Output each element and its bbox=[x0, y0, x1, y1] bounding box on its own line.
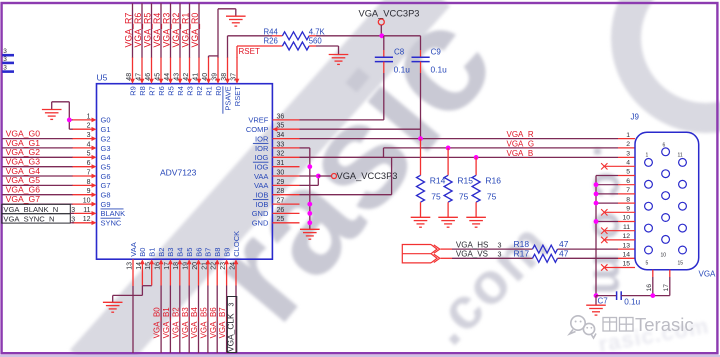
wire net VGA_R7 bbox=[132, 3, 134, 57]
PSAVE overline bbox=[222, 86, 224, 114]
svg-text:IOG: IOG bbox=[255, 153, 269, 162]
svg-text:R3: R3 bbox=[185, 86, 194, 96]
junction J9 pin 7 bbox=[594, 192, 599, 197]
svg-text:J9: J9 bbox=[631, 113, 640, 122]
svg-text:R26: R26 bbox=[264, 37, 278, 46]
svg-text:VGA_VCC3P3: VGA_VCC3P3 bbox=[337, 171, 398, 181]
U5 pin 38 stub bbox=[227, 57, 229, 80]
wire net VGA_R0 bbox=[198, 3, 200, 57]
svg-text:VGA_R2: VGA_R2 bbox=[171, 13, 181, 48]
svg-text:G8: G8 bbox=[101, 191, 111, 200]
U5 pin 43 stub bbox=[179, 57, 181, 80]
svg-text:30: 30 bbox=[277, 169, 285, 176]
wire GND pins junctions bbox=[307, 211, 312, 216]
svg-text:3: 3 bbox=[3, 65, 7, 72]
U5 pin 15 stub bbox=[151, 263, 153, 286]
no-connect X pin 11 bbox=[601, 228, 607, 234]
svg-text:IOR: IOR bbox=[255, 144, 269, 153]
svg-text:32: 32 bbox=[277, 151, 285, 158]
wire VGA_R line bbox=[300, 138, 619, 140]
svg-text:R9: R9 bbox=[128, 86, 137, 96]
port VGA_BLANK_N box bbox=[2, 204, 71, 213]
junction pin16 pin17 C7 bbox=[650, 293, 655, 298]
wire net VGA_R6 bbox=[141, 3, 143, 57]
wire VGA_B line bbox=[384, 156, 619, 158]
svg-text:5: 5 bbox=[646, 261, 649, 267]
U5 pin 44 stub bbox=[170, 57, 172, 80]
svg-text:13: 13 bbox=[126, 262, 133, 270]
svg-text:B9: B9 bbox=[222, 248, 231, 257]
svg-text:IOG: IOG bbox=[255, 163, 269, 172]
svg-text:13: 13 bbox=[622, 242, 630, 249]
U5 pin 29 stub bbox=[272, 184, 299, 186]
junction VGA_B R16 bbox=[474, 155, 479, 160]
wire J9 ground net vertical bbox=[595, 176, 597, 296]
svg-text:0.1u: 0.1u bbox=[394, 65, 411, 75]
ground below C7 bbox=[595, 296, 597, 306]
svg-text:B5: B5 bbox=[185, 248, 194, 257]
capacitor C9 bbox=[420, 36, 422, 50]
ground top near R44 bbox=[226, 15, 246, 17]
U5 pin 10 stub bbox=[72, 203, 92, 205]
wire R17 to J9 pin14 bbox=[558, 257, 619, 259]
svg-text:VGA_R5: VGA_R5 bbox=[142, 13, 152, 48]
U5 pin 6 stub bbox=[72, 166, 92, 168]
svg-text:10: 10 bbox=[622, 215, 630, 222]
svg-text:IOR: IOR bbox=[255, 134, 269, 143]
wire net VGA_B5 bbox=[207, 286, 209, 354]
wire net VGA_G1 bbox=[2, 147, 72, 149]
no-connect X pin 12 bbox=[601, 237, 607, 243]
J9 pin 7 stub gnd bbox=[618, 193, 635, 195]
connector J9 holes bbox=[645, 159, 653, 167]
svg-text:15: 15 bbox=[622, 261, 630, 268]
U5 pin 28 stub bbox=[272, 194, 299, 196]
svg-text:47: 47 bbox=[559, 248, 569, 258]
svg-text:VREF: VREF bbox=[248, 116, 268, 125]
wire net VGA_G7 bbox=[2, 203, 72, 205]
U5 pin 40 stub bbox=[208, 57, 210, 80]
svg-text:R14: R14 bbox=[430, 176, 446, 186]
U5 pin 18 stub bbox=[179, 263, 181, 286]
wire net VGA_R3 bbox=[170, 3, 172, 57]
svg-text:VGA_B1: VGA_B1 bbox=[162, 307, 171, 339]
wire VGA_G line bbox=[384, 147, 619, 149]
sheet entry VGA_HS VGA_VS bbox=[402, 245, 431, 263]
U5 pin 19 stub bbox=[188, 263, 190, 286]
wire net VGA_G4 bbox=[2, 175, 72, 177]
svg-text:VGA_HS: VGA_HS bbox=[456, 240, 488, 249]
svg-text:VGA_R4: VGA_R4 bbox=[152, 13, 162, 48]
svg-text:75: 75 bbox=[431, 192, 441, 202]
svg-text:VGA_B3: VGA_B3 bbox=[181, 307, 190, 339]
svg-text:ADV7123: ADV7123 bbox=[160, 168, 197, 178]
svg-text:RSET: RSET bbox=[239, 47, 260, 56]
svg-text:R15: R15 bbox=[457, 176, 473, 186]
J9 pin 12 stub nc bbox=[604, 239, 635, 241]
svg-text:2: 2 bbox=[626, 141, 630, 148]
svg-text:R8: R8 bbox=[138, 86, 147, 96]
junction VAA bbox=[316, 174, 321, 179]
svg-text:10: 10 bbox=[83, 198, 91, 205]
junction G0 ground bbox=[67, 118, 72, 123]
U5 pin 32 stub bbox=[272, 156, 299, 158]
svg-text:75: 75 bbox=[487, 192, 497, 202]
svg-text:R2: R2 bbox=[195, 86, 204, 96]
svg-text:3: 3 bbox=[626, 150, 630, 157]
junction J9 pin 10 bbox=[594, 219, 599, 224]
svg-text:CLOCK: CLOCK bbox=[232, 231, 241, 257]
J9 pin 4 stub nc bbox=[604, 165, 635, 167]
svg-text:11: 11 bbox=[623, 224, 630, 231]
J9 pin 9 stub nc bbox=[604, 211, 635, 213]
wire net VGA_G2 bbox=[2, 156, 72, 158]
svg-text:B1: B1 bbox=[148, 248, 157, 257]
svg-text:3: 3 bbox=[3, 56, 7, 63]
svg-text:G4: G4 bbox=[101, 153, 111, 162]
J9 pin 5 stub gnd bbox=[618, 175, 635, 177]
U5 pin 13 stub bbox=[132, 259, 134, 286]
ground near U5 pin1 bbox=[42, 109, 62, 111]
svg-text:VGA_G: VGA_G bbox=[507, 139, 535, 148]
wire VREF bbox=[300, 119, 384, 121]
J9 pin 15 stub nc bbox=[604, 267, 635, 269]
svg-text:3: 3 bbox=[228, 303, 235, 307]
U5 pin 42 stub bbox=[189, 57, 191, 80]
no-connect X pin 9 bbox=[601, 209, 607, 215]
svg-text:VGA_R1: VGA_R1 bbox=[180, 13, 190, 48]
svg-text:VGA_B: VGA_B bbox=[507, 149, 534, 158]
svg-text:15: 15 bbox=[678, 261, 684, 267]
svg-text:G5: G5 bbox=[101, 163, 111, 172]
svg-text:7: 7 bbox=[87, 169, 91, 176]
svg-text:G1: G1 bbox=[101, 125, 111, 134]
svg-text:RSET: RSET bbox=[233, 86, 242, 106]
svg-text:VGA: VGA bbox=[699, 270, 717, 279]
svg-text:8: 8 bbox=[626, 196, 630, 203]
svg-text:R16: R16 bbox=[485, 176, 501, 186]
wire R1 to ground bbox=[208, 56, 210, 58]
svg-text:VGA_CLK: VGA_CLK bbox=[226, 313, 236, 352]
J9 pin 10 stub gnd bbox=[618, 221, 635, 223]
port VGA_SYNC_N box bbox=[2, 214, 71, 223]
svg-text:VGA_VCC3P3: VGA_VCC3P3 bbox=[359, 8, 420, 18]
wire IOG to jog bbox=[300, 156, 384, 158]
J9 pin 8 stub gnd bbox=[618, 202, 635, 204]
wire net VGA_G6 bbox=[2, 194, 72, 196]
J9 pin 6 stub gnd bbox=[618, 184, 635, 186]
junction J9 pin 6 bbox=[594, 182, 599, 187]
J9 pin 17 wire bbox=[669, 270, 671, 277]
svg-text:VGA_B5: VGA_B5 bbox=[200, 307, 209, 339]
svg-text:Terasic: Terasic bbox=[635, 314, 694, 335]
svg-text:VGA_B2: VGA_B2 bbox=[171, 307, 180, 339]
wire VAA to VCC bbox=[300, 175, 319, 177]
arrow COMP bbox=[272, 127, 277, 132]
svg-text:G6: G6 bbox=[101, 172, 111, 181]
svg-text:IOB: IOB bbox=[255, 191, 268, 200]
U5 pin 24 stub bbox=[235, 263, 237, 286]
wire R26 to ground bbox=[309, 45, 316, 47]
svg-text:1: 1 bbox=[626, 132, 630, 139]
U5 pin 22 stub bbox=[216, 263, 218, 286]
bus stub 3 b bbox=[2, 62, 14, 65]
wire IOB- junction bbox=[307, 202, 312, 207]
U5 pin 14 stub bbox=[141, 263, 143, 286]
connector J9 body bbox=[635, 132, 699, 269]
capacitor C8 bbox=[383, 36, 385, 50]
wire R18 to J9 pin13 bbox=[558, 248, 619, 250]
svg-text:3: 3 bbox=[498, 250, 502, 259]
U5 pin 30 stub bbox=[272, 175, 299, 177]
svg-text:IOB: IOB bbox=[255, 200, 268, 209]
wire R0 to ground bbox=[217, 9, 219, 58]
svg-text:VAA: VAA bbox=[254, 181, 268, 190]
svg-text:12: 12 bbox=[622, 233, 630, 240]
wire net VGA_G3 bbox=[2, 166, 72, 168]
wire net VGA_B2 bbox=[179, 286, 181, 354]
svg-text:25: 25 bbox=[277, 216, 285, 223]
wire net VGA_VS bbox=[441, 257, 453, 259]
bus stub 3 c bbox=[2, 70, 14, 73]
wire R44 to VCC bbox=[309, 35, 316, 37]
U5 pin 47 stub bbox=[141, 57, 143, 80]
svg-text:R0: R0 bbox=[214, 86, 223, 96]
svg-text:VGA_R7: VGA_R7 bbox=[123, 13, 133, 48]
svg-text:VGA_G7: VGA_G7 bbox=[6, 194, 41, 204]
svg-text:C8: C8 bbox=[394, 48, 405, 57]
ground below R15 bbox=[438, 216, 458, 218]
U5 pin 2 stub bbox=[72, 128, 92, 130]
J9 pin 11 stub nc bbox=[604, 230, 635, 232]
svg-text:35: 35 bbox=[277, 123, 285, 130]
svg-text:3: 3 bbox=[3, 48, 7, 55]
U5 pin 12 stub bbox=[72, 222, 92, 224]
svg-text:GND: GND bbox=[252, 209, 269, 218]
no-connect X pin 4 bbox=[601, 163, 607, 169]
svg-text:75: 75 bbox=[459, 192, 469, 202]
svg-text:7: 7 bbox=[626, 187, 630, 194]
svg-text:G9: G9 bbox=[101, 200, 111, 209]
svg-text:VGA_R0: VGA_R0 bbox=[190, 13, 200, 48]
resistor R14 75 bbox=[420, 139, 422, 176]
svg-text:B4: B4 bbox=[176, 248, 185, 257]
wire net VGA_B4 bbox=[198, 286, 200, 354]
svg-text:G7: G7 bbox=[101, 181, 111, 190]
port VGA_CLK box bbox=[227, 297, 236, 353]
U5 pin 23 stub bbox=[226, 263, 228, 286]
svg-text:COMP: COMP bbox=[246, 125, 269, 134]
svg-text:5: 5 bbox=[87, 151, 91, 158]
svg-text:VAA: VAA bbox=[129, 242, 138, 256]
svg-text:G3: G3 bbox=[101, 144, 111, 153]
wire net VGA_G0 bbox=[2, 138, 72, 140]
watermark wechat logo bbox=[570, 316, 597, 338]
svg-text:BLANK: BLANK bbox=[101, 209, 126, 218]
svg-text:1: 1 bbox=[646, 153, 649, 159]
wire net VGA_R4 bbox=[160, 3, 162, 57]
wire PSAVE to R44 bbox=[227, 36, 229, 58]
U5 pin 37 stub bbox=[236, 57, 238, 80]
U5 pin 4 stub bbox=[72, 147, 92, 149]
IC U5 ADV7123 body bbox=[97, 84, 273, 260]
svg-text:U5: U5 bbox=[97, 73, 108, 83]
svg-text:SYNC: SYNC bbox=[101, 219, 122, 228]
U5 pin 39 stub bbox=[217, 57, 219, 80]
wire net VGA_B1 bbox=[169, 286, 171, 354]
power port VGA_VCC3P3 mid bbox=[318, 175, 331, 177]
svg-text:5: 5 bbox=[626, 169, 630, 176]
wire VAA down to border bbox=[132, 286, 134, 353]
svg-text:R17: R17 bbox=[514, 248, 530, 258]
bus stub 3 a bbox=[2, 54, 14, 57]
U5 pin 8 stub bbox=[72, 184, 92, 186]
svg-text:G2: G2 bbox=[101, 134, 111, 143]
wire net VGA_G5 bbox=[2, 184, 72, 186]
svg-text:R1: R1 bbox=[204, 86, 213, 96]
resistor R16 75 bbox=[475, 157, 477, 175]
svg-text:17: 17 bbox=[663, 284, 670, 292]
wire IOB to jog bbox=[300, 194, 392, 196]
svg-text:GND: GND bbox=[252, 219, 269, 228]
junction C7 left bbox=[594, 293, 599, 298]
wire IOR- to ground net bbox=[300, 147, 310, 149]
svg-text:0.1u: 0.1u bbox=[431, 65, 448, 75]
watermark top right arc bbox=[626, 0, 720, 118]
resistor R26 bbox=[282, 42, 309, 50]
U5 pin 1 stub bbox=[72, 119, 92, 121]
svg-text:0.1u: 0.1u bbox=[624, 298, 640, 307]
junction VGA_R R14 bbox=[418, 136, 423, 141]
svg-text:27: 27 bbox=[277, 198, 285, 205]
U5 pin 21 stub bbox=[207, 263, 209, 286]
svg-text:VGA_BLANK_N: VGA_BLANK_N bbox=[3, 205, 58, 214]
wire net VGA_B0 bbox=[160, 286, 162, 354]
svg-text:10: 10 bbox=[661, 253, 667, 259]
wire net VGA_B7 bbox=[226, 286, 228, 354]
svg-text:R4: R4 bbox=[176, 86, 185, 96]
svg-text:VGA_B6: VGA_B6 bbox=[209, 307, 218, 339]
svg-text:C9: C9 bbox=[431, 48, 442, 57]
U5 pin 26 stub bbox=[272, 212, 299, 214]
junction VCC top bbox=[379, 33, 384, 38]
U5 pin 34 stub bbox=[272, 138, 299, 140]
U5 pin 45 stub bbox=[160, 57, 162, 80]
U5 pin 16 stub bbox=[160, 263, 162, 286]
ground below R16 bbox=[466, 216, 486, 218]
svg-text:PSAVE: PSAVE bbox=[223, 86, 232, 110]
svg-text:VGA_VS: VGA_VS bbox=[456, 250, 488, 259]
ground below R26 bbox=[329, 54, 349, 56]
ground below R14 bbox=[411, 216, 431, 218]
U5 pin 3 stub bbox=[72, 138, 92, 140]
svg-text:560: 560 bbox=[309, 37, 323, 46]
svg-text:B7: B7 bbox=[204, 248, 213, 257]
svg-text:R44: R44 bbox=[264, 28, 279, 37]
U5 pin 11 stub bbox=[72, 212, 92, 214]
wire IOG- junction bbox=[307, 164, 312, 169]
resistor R15 75 bbox=[447, 148, 449, 175]
U5 pin 17 stub bbox=[169, 263, 171, 286]
U5 pin 5 stub bbox=[72, 156, 92, 158]
U5 pin 7 stub bbox=[72, 175, 92, 177]
svg-text:6: 6 bbox=[663, 143, 666, 149]
junction VGA_G R15 bbox=[446, 146, 451, 151]
svg-text:R7: R7 bbox=[147, 86, 156, 96]
U5 pin 46 stub bbox=[151, 57, 153, 80]
wire G0 G1 to ground bbox=[69, 119, 72, 121]
svg-text:6: 6 bbox=[626, 178, 630, 185]
U5 pin 33 stub bbox=[272, 147, 299, 149]
wire RSET to R26 red bbox=[236, 46, 238, 58]
svg-text:36: 36 bbox=[277, 113, 285, 120]
wire VGA_BLANK_N bbox=[70, 212, 74, 214]
wire net VGA_CLK bbox=[235, 286, 237, 354]
svg-text:R5: R5 bbox=[166, 86, 175, 96]
svg-text:VGA_SYNC_N: VGA_SYNC_N bbox=[3, 214, 54, 223]
wire COMP bbox=[300, 128, 421, 130]
svg-text:VAA: VAA bbox=[254, 172, 268, 181]
wire net VGA_B6 bbox=[216, 286, 218, 354]
svg-text:9: 9 bbox=[626, 206, 630, 213]
svg-text:VGA_B0: VGA_B0 bbox=[153, 307, 162, 339]
svg-text:VGA_R6: VGA_R6 bbox=[133, 13, 143, 48]
U5 pin 31 stub bbox=[272, 166, 299, 168]
J9 pin 16 wire bbox=[652, 270, 654, 277]
svg-text:B8: B8 bbox=[213, 248, 222, 257]
svg-text:11: 11 bbox=[678, 153, 683, 159]
wire net VGA_B3 bbox=[188, 286, 190, 354]
wire net VGA_R2 bbox=[179, 3, 181, 57]
svg-text:B3: B3 bbox=[166, 248, 175, 257]
junction J9 pin 8 bbox=[594, 201, 599, 206]
svg-text:G0: G0 bbox=[101, 116, 111, 125]
svg-text:3: 3 bbox=[498, 240, 502, 249]
wire net VGA_R1 bbox=[189, 3, 191, 57]
wire B0 B1 to ground bbox=[142, 285, 151, 287]
svg-text:C7: C7 bbox=[598, 297, 609, 306]
capacitor C7 bbox=[596, 295, 617, 297]
wire net VGA_R5 bbox=[151, 3, 153, 57]
watermark diagonal band bbox=[90, 0, 430, 357]
svg-text:16: 16 bbox=[646, 284, 653, 292]
svg-text:B0: B0 bbox=[138, 248, 147, 257]
svg-text:4: 4 bbox=[626, 160, 630, 167]
svg-text:3: 3 bbox=[87, 132, 91, 139]
no-connect X pin 15 bbox=[601, 264, 607, 270]
svg-text:VGA_R3: VGA_R3 bbox=[161, 13, 171, 48]
U5 pin 25 stub bbox=[272, 222, 299, 224]
svg-text:34: 34 bbox=[277, 132, 285, 139]
svg-text:R6: R6 bbox=[157, 86, 166, 96]
U5 pin 27 stub bbox=[272, 203, 299, 205]
resistor R44 bbox=[282, 32, 309, 40]
svg-text:14: 14 bbox=[622, 252, 630, 259]
U5 pin 20 stub bbox=[198, 263, 200, 286]
U5 pin 41 stub bbox=[198, 57, 200, 80]
watermark terasic text bbox=[603, 318, 633, 332]
ground below B0 bbox=[103, 301, 123, 303]
wire VGA_SYNC_N bbox=[70, 222, 74, 224]
ground below U5 right bbox=[300, 228, 320, 230]
svg-text:12: 12 bbox=[83, 216, 91, 223]
U5 pin 48 stub bbox=[132, 57, 134, 80]
U5 pin 9 stub bbox=[72, 194, 92, 196]
svg-text:VGA_R: VGA_R bbox=[507, 130, 534, 139]
wire net VGA_HS bbox=[441, 248, 453, 250]
svg-text:B2: B2 bbox=[157, 248, 166, 257]
svg-text:VGA_B4: VGA_B4 bbox=[190, 307, 199, 339]
